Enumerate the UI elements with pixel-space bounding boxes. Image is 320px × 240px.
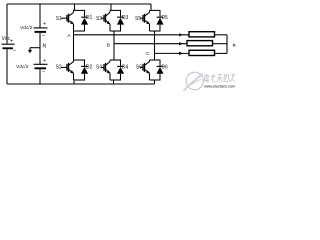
load resistor phase A: [189, 32, 215, 37]
wire leg3 bottom pair lower bar: [150, 79, 161, 81]
wire leg3 bottom drop: [154, 80, 156, 84]
transistor S3: [101, 10, 110, 31]
battery Vdc: [2, 44, 15, 48]
transistor S1: [61, 10, 74, 31]
wire leg1 top drop: [74, 4, 76, 10]
wire leg2 bottom pair lower bar: [110, 79, 121, 81]
svg-text:D5: D5: [161, 15, 168, 21]
svg-text:D1: D1: [86, 15, 93, 21]
load resistor phase B: [187, 41, 213, 46]
wire leg1 top pair upper bar: [73, 9, 85, 11]
watermark logo circle: [184, 72, 204, 91]
wire leg3 bottom pair upper bar: [150, 59, 161, 61]
wire load A to neutral bus: [215, 34, 228, 36]
svg-text:S4: S4: [96, 65, 102, 71]
wire phase line B: [114, 43, 187, 45]
wire leg3 top drop: [150, 4, 152, 10]
wire leg2 bottom drop: [113, 80, 115, 84]
wire leg1 mid vertical: [73, 31, 75, 60]
arrow phase C: [179, 52, 183, 55]
svg-text:www.elecfans.com: www.elecfans.com: [204, 84, 235, 89]
wire leg2 top pair lower bar: [110, 30, 121, 32]
transistor S2: [61, 60, 74, 80]
wire phase line C: [155, 52, 189, 54]
transistor S4: [101, 60, 110, 80]
wire phase line A: [74, 34, 189, 36]
svg-text:n: n: [233, 42, 236, 47]
diode D1: [81, 10, 88, 31]
wire leg2 mid vertical: [113, 31, 115, 60]
svg-text:D3: D3: [122, 15, 129, 21]
load resistor phase C: [189, 50, 215, 55]
svg-text:+: +: [43, 58, 46, 64]
wire DC-link stack middle: [39, 33, 41, 65]
node N arrow: [28, 48, 40, 54]
svg-text:−: −: [42, 69, 46, 75]
svg-text:Vdc/2: Vdc/2: [20, 25, 33, 31]
wire leg3 top pair upper bar: [150, 9, 161, 11]
capacitor C2 Vdc/2: [34, 64, 48, 68]
wire left wall lower: [6, 49, 8, 84]
wire leg3 top pair lower bar: [150, 30, 161, 32]
svg-text:+: +: [10, 39, 13, 45]
wire left wall upper: [6, 4, 8, 44]
svg-text:−: −: [42, 33, 46, 39]
wire leg3 mid vertical: [154, 31, 156, 60]
wire leg1 bottom drop: [73, 80, 75, 84]
svg-text:Vdc/2: Vdc/2: [16, 64, 29, 70]
wire load B to neutral bus: [213, 43, 228, 45]
wire leg2 top drop: [110, 4, 112, 10]
wire DC-link stack upper: [39, 4, 41, 28]
capacitor C1 Vdc/2: [34, 28, 48, 32]
svg-text:D4: D4: [122, 65, 129, 71]
transistor S6: [140, 60, 150, 80]
wire leg1 bottom pair lower bar: [74, 79, 86, 81]
wire neutral bus: [226, 35, 228, 54]
arrow phase B: [179, 42, 183, 45]
diode D4: [117, 60, 124, 80]
wire load C to neutral bus: [215, 52, 228, 54]
arrow phase A: [179, 33, 183, 36]
wire top DC rail: [7, 3, 151, 5]
wire leg1 top pair lower bar: [74, 30, 86, 32]
svg-text:N: N: [43, 44, 47, 50]
diode D5: [156, 10, 163, 31]
svg-text:S5: S5: [135, 16, 141, 22]
transistor S5: [140, 10, 150, 31]
svg-text:D6: D6: [161, 65, 168, 71]
diode D3: [117, 10, 124, 31]
wire leg2 bottom pair upper bar: [110, 59, 121, 61]
svg-text:S6: S6: [136, 65, 142, 71]
watermark text elecfans chinese: [204, 74, 236, 82]
wire bottom DC rail: [7, 83, 155, 85]
svg-text:+: +: [43, 21, 46, 27]
svg-text:A: A: [67, 33, 71, 39]
diode D6: [156, 60, 163, 80]
svg-text:S3: S3: [96, 16, 102, 22]
svg-text:D2: D2: [86, 65, 93, 71]
svg-text:S2: S2: [56, 65, 62, 71]
wire DC-link stack lower: [39, 69, 41, 84]
diode D2: [81, 60, 88, 80]
svg-text:−: −: [13, 48, 17, 54]
svg-text:S1: S1: [56, 16, 62, 22]
svg-text:C: C: [146, 51, 150, 57]
wire leg1 bottom pair upper bar: [74, 59, 86, 61]
svg-text:B: B: [107, 42, 110, 48]
wire leg2 top pair upper bar: [110, 9, 121, 11]
